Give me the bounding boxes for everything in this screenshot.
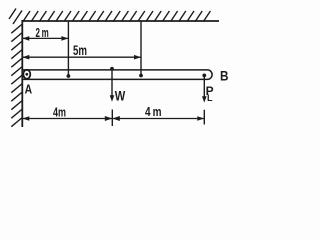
right tick [203,110,205,125]
load W attachment dot [110,67,114,71]
svg-text:2 m: 2 m [36,26,49,40]
2m dimension line [23,37,68,39]
svg-text:B: B [220,68,229,84]
beam AB [22,70,212,80]
svg-text:4 m: 4 m [145,105,162,119]
pin support circle at A [23,70,30,79]
bottom right arrowhead [197,116,204,121]
load P attachment dot [202,74,206,78]
middle left-facing arrowhead [105,116,113,121]
hanger rod at 5m [140,21,142,76]
pin center dot [25,73,28,76]
bottom dimension line [23,118,204,120]
wall hatching [11,24,22,127]
load P arrow [203,75,205,97]
svg-text:4m: 4m [53,106,66,120]
hanger attachment dot [139,74,143,78]
5m right arrowhead [134,55,141,60]
middle tick [111,110,113,127]
svg-text:A: A [25,81,33,96]
hanger attachment dot [67,74,71,78]
bottom left arrowhead [22,116,29,121]
hanger rod at 2m [67,21,69,76]
ceiling line [22,20,219,22]
ceiling hatching [9,9,210,25]
svg-text:W: W [115,87,126,103]
middle right-facing arrowhead [112,116,120,121]
svg-text:5m: 5m [73,43,87,58]
2m right arrowhead [61,36,68,41]
wall line [21,20,23,127]
svg-text:L: L [207,93,213,103]
2m left arrowhead [22,36,29,41]
load W arrow [111,69,113,97]
5m left arrowhead [22,55,29,60]
5m dimension line [23,56,141,58]
